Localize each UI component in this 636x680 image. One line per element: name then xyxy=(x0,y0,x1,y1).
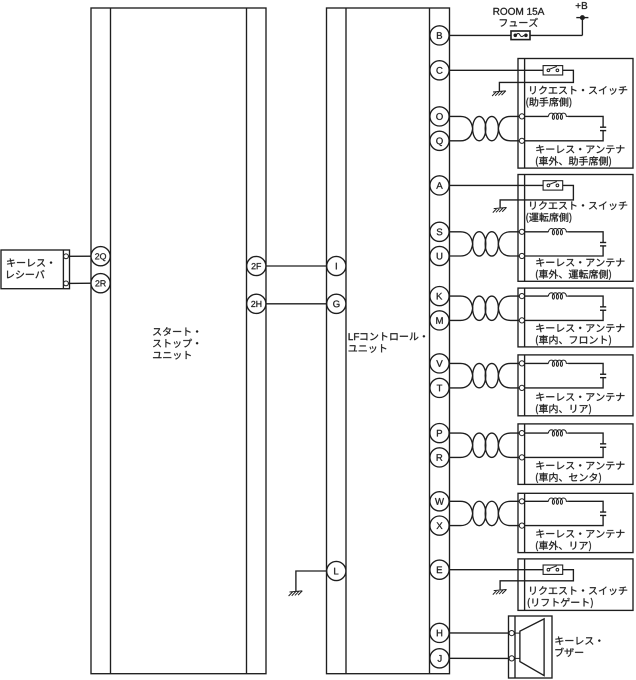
unit: keyless antenna box (interior center) xyxy=(518,424,633,485)
ground (request switch passenger) xyxy=(492,91,506,96)
pin O xyxy=(430,107,449,126)
pin V xyxy=(430,354,449,373)
wire request switch (driver) to ground xyxy=(500,185,573,208)
pin K xyxy=(430,287,449,306)
receiver pin (lower) xyxy=(64,281,69,286)
unit: start-stop unit box xyxy=(91,8,266,674)
pin H xyxy=(430,623,449,642)
unit: keyless antenna box (exterior rear) xyxy=(518,493,633,552)
antenna coil and capacitor (interior front) xyxy=(525,293,607,321)
buzzer pin (H side) xyxy=(509,631,514,636)
unit: keyless receiver box xyxy=(1,250,70,289)
twisted pair K/M xyxy=(450,296,520,320)
label リクエスト・スイッチ(リフトゲート) xyxy=(528,586,627,608)
pin T xyxy=(430,378,449,397)
pin B xyxy=(430,26,449,45)
twisted pair P/R xyxy=(450,433,520,457)
wire 2H to G xyxy=(256,303,336,305)
label キーレス・ブザー xyxy=(555,637,600,657)
pin L xyxy=(327,561,346,580)
pin P xyxy=(430,424,449,443)
antenna box pin (K side) xyxy=(519,294,524,299)
label リクエスト・スイッチ(助手席側) xyxy=(526,86,627,108)
antenna box pin (T side) xyxy=(519,385,524,390)
label リクエスト・スイッチ(運転席側) xyxy=(526,201,627,223)
pin M xyxy=(430,311,449,330)
antenna box pin (O side) xyxy=(519,114,524,119)
pin 2H xyxy=(247,294,266,313)
fuse ROOM 15A xyxy=(511,31,530,40)
unit: request switch / keyless antenna box (driver side) xyxy=(518,175,633,282)
label LFコントロール・ユニット xyxy=(349,332,425,352)
antenna coil and capacitor (interior center) xyxy=(525,430,607,458)
pin X xyxy=(430,516,449,535)
antenna box pin (Q side) xyxy=(519,138,524,143)
node +B xyxy=(576,2,589,20)
ground (LF control unit L) xyxy=(289,591,303,596)
pin R xyxy=(430,448,449,467)
antenna coil and capacitor (exterior rear) xyxy=(525,498,607,526)
ground (request switch driver) xyxy=(493,207,507,212)
pin E xyxy=(430,560,449,579)
unit: LF control unit box xyxy=(327,8,450,674)
label キーレス・アンテナ(車外、運転席側) xyxy=(536,258,624,280)
pin I xyxy=(327,256,346,275)
ground (request switch liftgate) xyxy=(493,589,507,594)
unit: request switch box (liftgate) xyxy=(518,559,633,611)
unit: request switch / keyless antenna box (passenger side) xyxy=(518,59,633,169)
label キーレス・アンテナ (interior rear) xyxy=(536,393,624,415)
label スタート・ストップ・ユニット xyxy=(153,327,198,359)
antenna box pin (U side) xyxy=(519,253,524,258)
antenna box pin (R side) xyxy=(519,455,524,460)
wire J to buzzer xyxy=(440,657,512,659)
unit: keyless antenna box (interior front) xyxy=(518,288,633,347)
twisted pair O/Q xyxy=(450,116,520,140)
antenna box pin (S side) xyxy=(519,229,524,234)
label キーレス・レシーバ xyxy=(7,259,52,279)
pin S xyxy=(430,222,449,241)
pin Q xyxy=(430,131,449,150)
pin 2R xyxy=(91,274,110,293)
label ROOM 15A フューズ xyxy=(493,8,544,27)
antenna coil and capacitor (outside passenger) xyxy=(525,113,607,141)
pin 2Q xyxy=(91,247,110,266)
buzzer pin (J side) xyxy=(509,656,514,661)
antenna box pin (M side) xyxy=(519,318,524,323)
wire B to fuse xyxy=(440,34,512,36)
wire receiver pin to 2R xyxy=(66,282,95,284)
antenna box pin (V side) xyxy=(519,361,524,366)
label キーレス・アンテナ(車外、助手席側) xyxy=(536,145,624,167)
wire E to request switch (liftgate) xyxy=(440,569,544,571)
antenna box pin (W side) xyxy=(519,499,524,504)
label キーレス・アンテナ (exterior rear) xyxy=(536,530,624,552)
pin J xyxy=(430,649,449,668)
pin U xyxy=(430,246,449,265)
wire A to request switch (driver) xyxy=(440,184,544,186)
antenna coil and capacitor (outside driver) xyxy=(525,229,607,257)
buzzer speaker symbol xyxy=(514,619,544,676)
wire L to ground xyxy=(296,571,336,591)
twisted pair V/T xyxy=(450,363,520,388)
pin A xyxy=(430,176,449,195)
wire H to buzzer xyxy=(440,632,512,634)
wire request switch (liftgate) to ground xyxy=(500,570,573,590)
wire C to request switch (passenger) xyxy=(440,69,544,71)
twisted pair S/U xyxy=(450,232,520,256)
antenna box pin (P side) xyxy=(519,431,524,436)
wire fuse to +B xyxy=(530,18,582,36)
unit: keyless antenna box (interior rear) xyxy=(518,355,633,416)
wire request switch (passenger) to ground xyxy=(499,70,573,91)
twisted pair W/X xyxy=(450,501,520,525)
pin C xyxy=(430,61,449,80)
unit: keyless buzzer box xyxy=(509,616,553,678)
label キーレス・アンテナ (interior center) xyxy=(536,461,624,483)
label キーレス・アンテナ (interior front) xyxy=(536,324,624,346)
antenna coil and capacitor (interior rear) xyxy=(525,360,607,388)
pin 2F xyxy=(247,256,266,275)
pin W xyxy=(430,492,449,511)
receiver pin (upper) xyxy=(64,254,69,259)
request switch (driver side) xyxy=(543,181,563,190)
pin G xyxy=(327,294,346,313)
wire receiver pin to 2Q xyxy=(66,255,95,257)
antenna box pin (X side) xyxy=(519,523,524,528)
request switch (liftgate) xyxy=(543,565,563,574)
wire 2F to I xyxy=(256,265,336,267)
request switch (passenger side) xyxy=(543,66,563,75)
